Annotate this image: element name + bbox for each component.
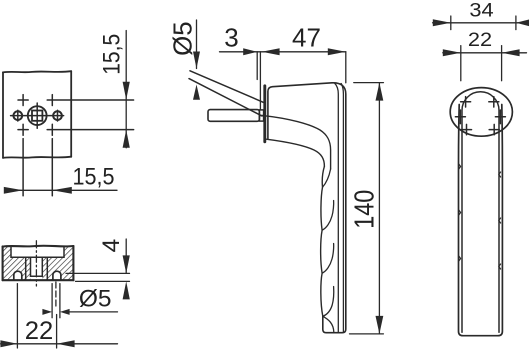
right screw hole dome [53, 271, 61, 280]
handle edge highlight line 2 [341, 84, 343, 333]
square hole dashed centerline [35, 241, 37, 286]
square hole walls [31, 257, 43, 276]
handle inner contour lower [266, 139, 324, 166]
svg-text:4: 4 [98, 239, 125, 253]
cross marks on rosette [455, 97, 505, 135]
svg-text:15,5: 15,5 [99, 34, 126, 75]
svg-text:Ø5: Ø5 [79, 285, 112, 312]
grip groove diagonal 1 [323, 169, 331, 187]
hatched material [3, 246, 74, 280]
horizontal centerline [11, 115, 64, 117]
dimension 34 (rosette width) [433, 16, 529, 30]
handle body outline [268, 83, 346, 333]
grip groove diagonal 4 [323, 287, 334, 317]
bar outer edges [459, 105, 503, 336]
grip wavy front edge [321, 166, 325, 316]
svg-text:22: 22 [468, 29, 492, 51]
right screw hole vertical centerline [57, 110, 59, 121]
dimension Ø5 (screw diameter) [196, 20, 198, 69]
extension lines below section for Ø5 [52, 282, 60, 318]
dimension 22 (bar hole spacing) [443, 46, 527, 81]
cross mark lower-right + extensions [47, 124, 133, 196]
neck collar [263, 86, 266, 142]
grip inner line to bottom [323, 316, 334, 332]
grip edge ticks right [499, 172, 501, 269]
cross mark lower-left + extension down [18, 124, 28, 196]
dimension 15,5 horizontal (bottom of view 1) [5, 189, 117, 191]
screw tip block [259, 110, 263, 121]
spindle bar [208, 110, 259, 122]
grip edge ticks left [459, 164, 461, 261]
dimension 3 / 47 (top of handle) [220, 52, 346, 110]
svg-text:34: 34 [469, 0, 493, 21]
recess pocket [11, 246, 64, 257]
cross mark upper-left [18, 95, 28, 106]
right screw hole [53, 111, 62, 120]
svg-text:22: 22 [25, 317, 54, 345]
svg-text:Ø5: Ø5 [168, 21, 198, 56]
screw shank upper line [190, 71, 264, 103]
plate outline with break edges [3, 71, 71, 158]
screw shank lower line [189, 79, 262, 116]
vertical centerline [36, 103, 38, 128]
dimension 4 (right of section) [66, 239, 130, 281]
dimension 22 (section hole spacing) [1, 284, 118, 348]
svg-text:15,5: 15,5 [73, 164, 115, 191]
dimension Ø5 (section screw hole) [66, 311, 118, 313]
handle edge highlight line 1 [335, 83, 339, 332]
dimension 15,5 vertical (right of view 1) [125, 31, 127, 148]
center spindle hole circle [28, 106, 47, 125]
left screw hole vertical centerline [17, 110, 19, 121]
bar U-top [462, 92, 499, 332]
svg-text:3: 3 [224, 23, 238, 53]
handle inner contour upper [265, 116, 331, 169]
section outline with break top edge [3, 246, 74, 280]
svg-text:47: 47 [292, 23, 321, 53]
square spindle hole [32, 111, 42, 121]
left screw hole dome [14, 271, 22, 280]
left screw hole [13, 111, 22, 120]
dimension 140 (handle height, right of view 3) [350, 83, 384, 334]
spindle boss walls [26, 257, 48, 280]
rosette [450, 88, 512, 137]
grip groove diagonal 2 [322, 201, 334, 231]
svg-text:140: 140 [349, 190, 380, 229]
cross mark upper-right + extension line to right [47, 95, 133, 106]
grip groove diagonal 3 [322, 244, 334, 274]
